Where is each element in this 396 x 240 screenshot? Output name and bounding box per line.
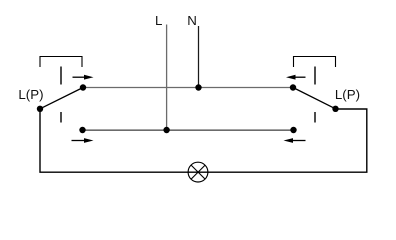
svg-text:L(P): L(P) xyxy=(335,87,360,102)
svg-text:N: N xyxy=(187,13,197,28)
svg-text:L: L xyxy=(155,13,162,28)
svg-text:L(P): L(P) xyxy=(18,87,43,102)
